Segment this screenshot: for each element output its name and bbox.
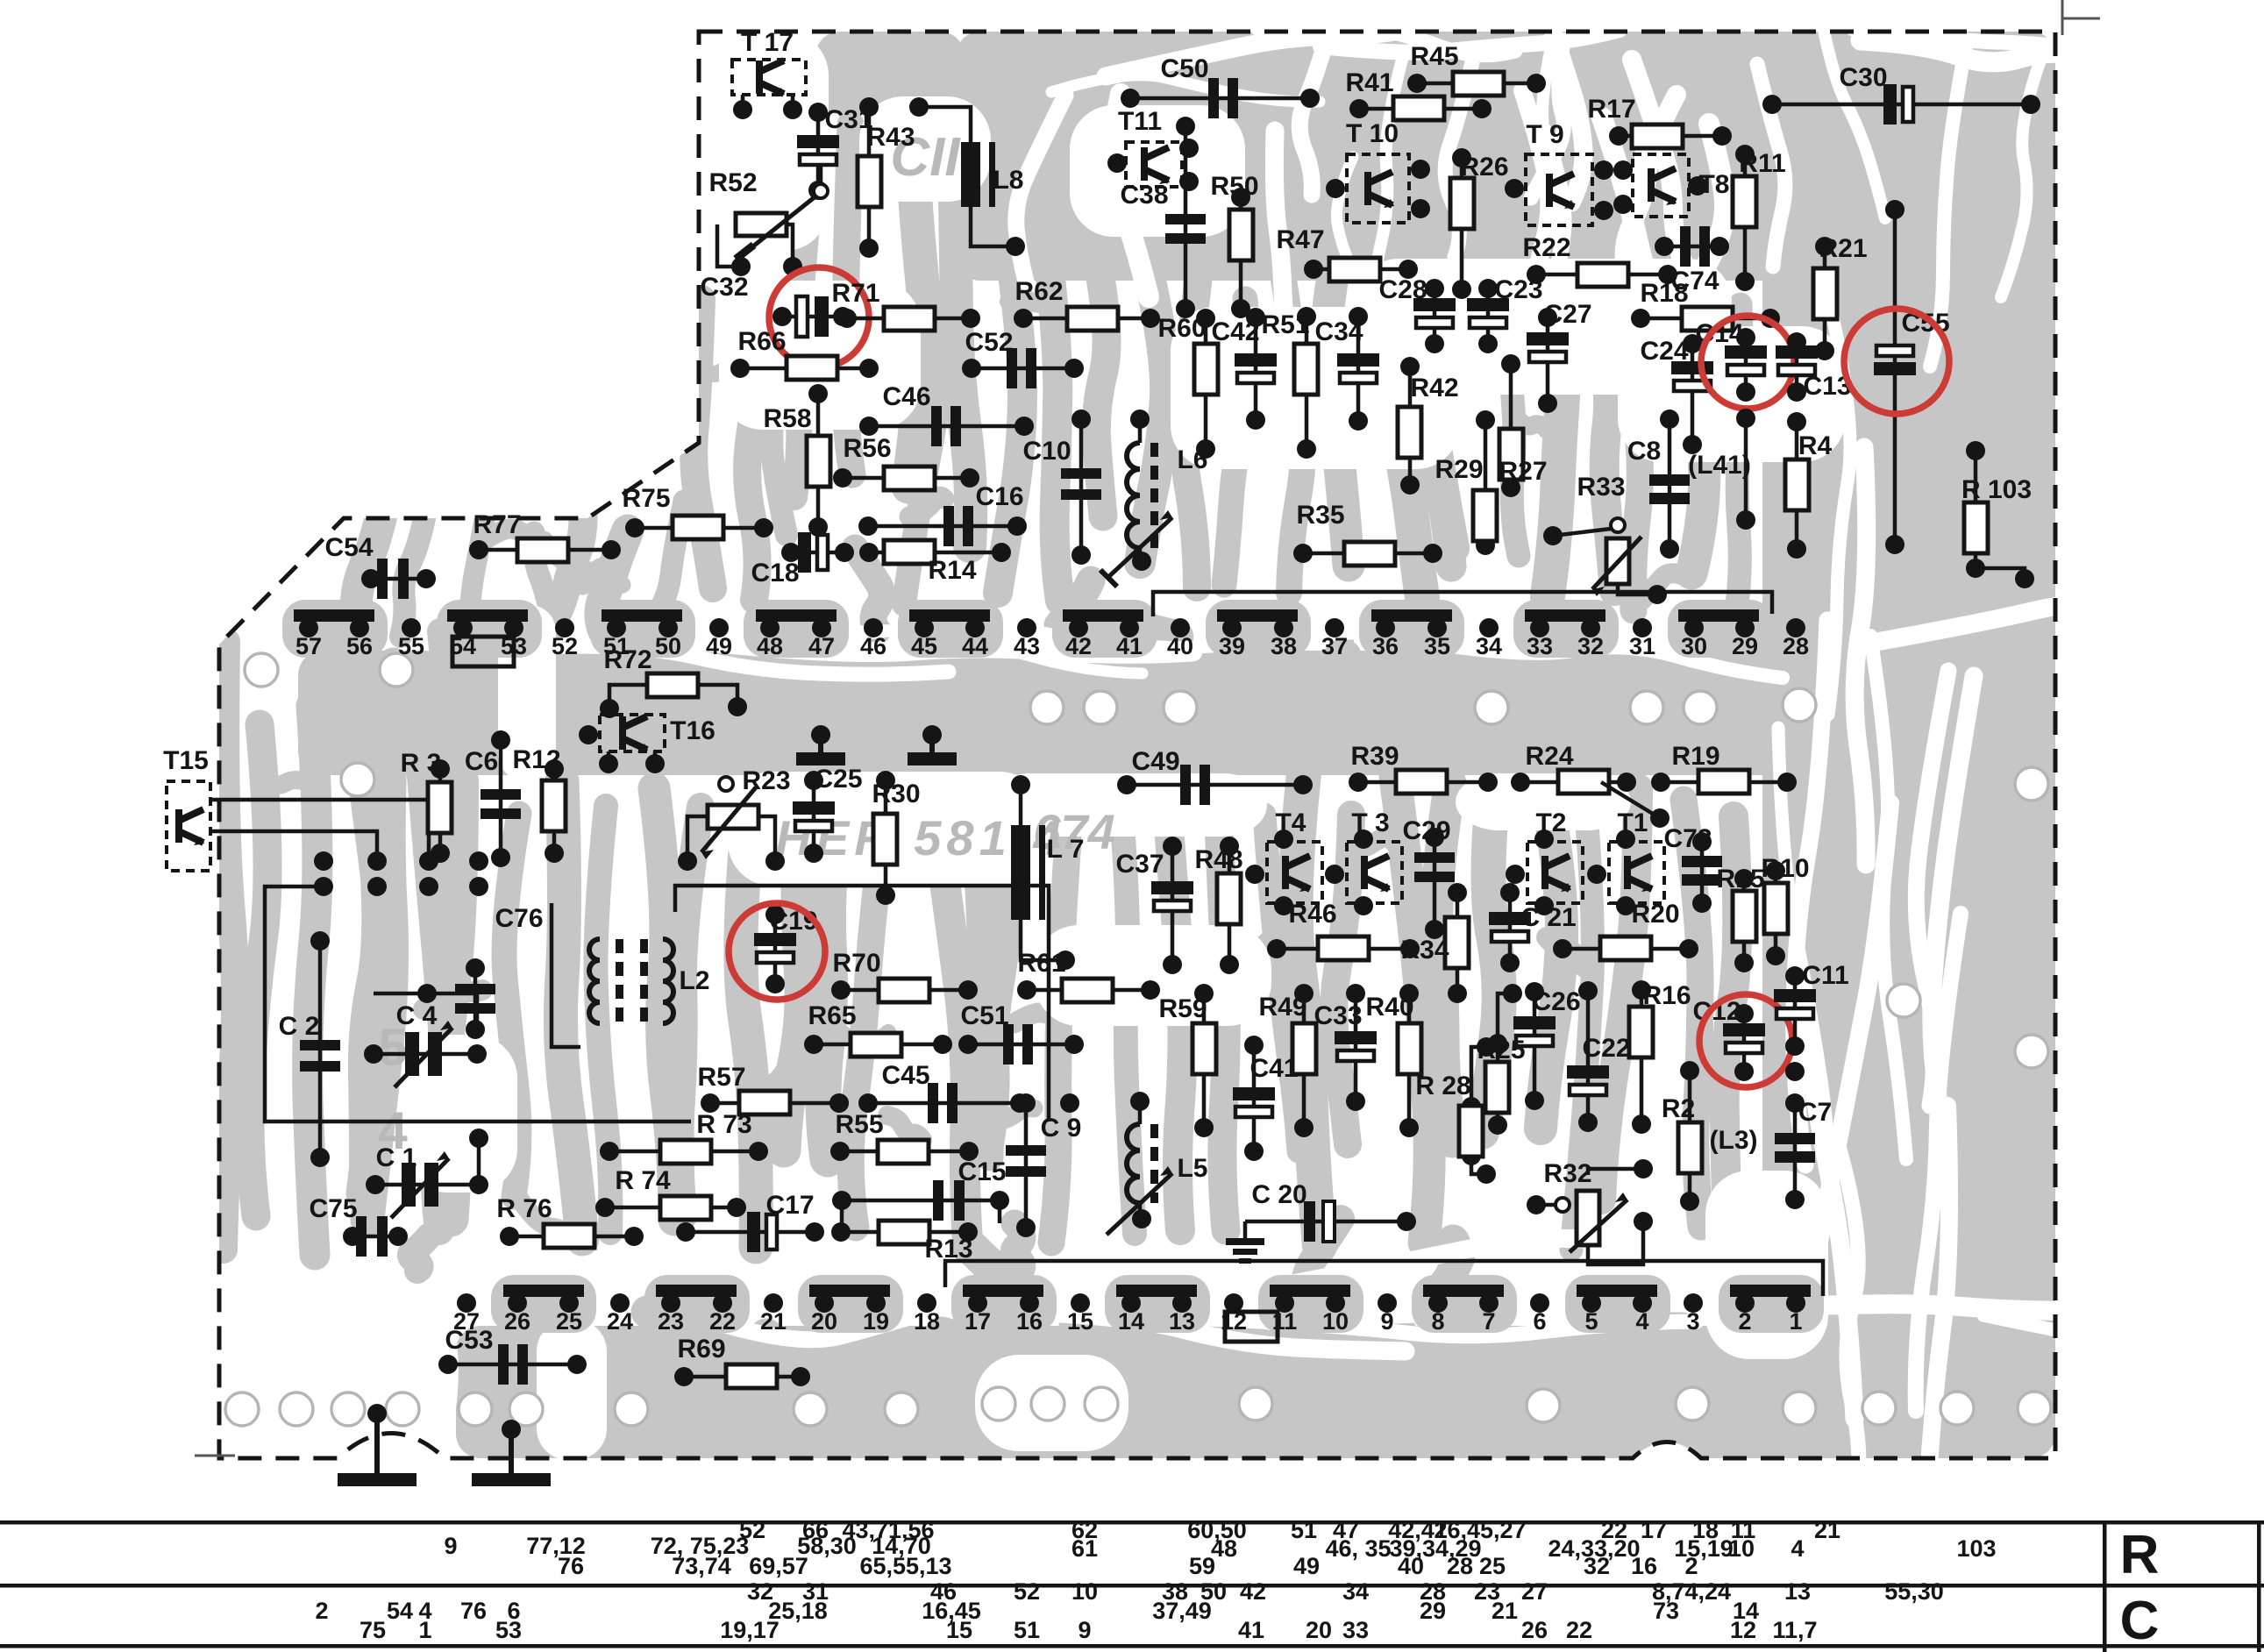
connector pins 5-4 [1577, 1285, 1657, 1297]
connector pins 23-22 [656, 1285, 737, 1297]
svg-text:R 73: R 73 [696, 1110, 751, 1139]
svg-text:13: 13 [1784, 1578, 1811, 1605]
connector pins 39-38 [1217, 609, 1298, 622]
resistor R27 [1509, 364, 1513, 488]
transistor T15 [167, 781, 210, 871]
resistor R48 [1228, 846, 1232, 965]
resistor R22 [1536, 273, 1668, 277]
wire loop left [265, 887, 691, 1122]
svg-text:C28: C28 [1378, 275, 1427, 304]
svg-text:T 3: T 3 [1351, 808, 1389, 837]
svg-text:4: 4 [1635, 1308, 1648, 1335]
svg-text:C50: C50 [1160, 54, 1208, 83]
transistor T10 [1347, 154, 1409, 223]
capacitor C26 [1533, 992, 1537, 1100]
connector pins 8-7 [1423, 1285, 1504, 1297]
capacitor C42 [1254, 317, 1258, 420]
mounting holes [245, 653, 278, 687]
svg-text:R14: R14 [928, 556, 976, 585]
node row [314, 851, 333, 871]
registration mark top right [2062, 0, 2100, 35]
svg-text:L 7: L 7 [1047, 835, 1085, 864]
resistor R70 [841, 988, 968, 993]
registration mark bottom left [195, 1455, 235, 1457]
svg-text:C15: C15 [958, 1157, 1006, 1186]
connector pad 3 [1684, 1293, 1703, 1313]
resistor R30 [884, 780, 888, 895]
node L41 wire [1744, 418, 1748, 520]
svg-text:C17: C17 [765, 1191, 814, 1220]
svg-text:76: 76 [460, 1598, 487, 1624]
svg-text:29: 29 [1732, 633, 1758, 659]
connector pins 36-35 [1371, 609, 1452, 622]
connector pins 30-29 [1678, 609, 1759, 622]
svg-text:R32: R32 [1543, 1159, 1591, 1188]
capacitor C38 [1184, 126, 1188, 309]
svg-text:37: 37 [1321, 633, 1348, 659]
resistor R26 [1460, 158, 1464, 289]
svg-text:R58: R58 [763, 404, 811, 433]
svg-text:56: 56 [346, 633, 373, 659]
capacitor C76 [473, 968, 478, 1029]
connector pins 33-32 [1525, 609, 1605, 622]
svg-text:3: 3 [1686, 1308, 1699, 1335]
resistor R17 [1619, 134, 1722, 139]
resistor R18 [1641, 317, 1770, 321]
svg-text:61: 61 [1071, 1535, 1098, 1562]
resistor R69 [684, 1375, 801, 1379]
svg-text:C16: C16 [975, 482, 1023, 511]
svg-text:R41: R41 [1345, 68, 1393, 97]
svg-text:R51: R51 [1261, 310, 1309, 339]
svg-text:34: 34 [1342, 1578, 1369, 1605]
svg-text:R23: R23 [742, 766, 790, 795]
svg-text:R20: R20 [1631, 900, 1679, 929]
resistor R74 [605, 1206, 737, 1210]
svg-text:L8: L8 [993, 166, 1023, 195]
svg-text:51: 51 [1291, 1517, 1317, 1543]
svg-text:20: 20 [811, 1308, 837, 1335]
svg-text:R24: R24 [1525, 742, 1573, 771]
capacitor C51 [968, 1043, 1074, 1047]
highlight circle C14 [1701, 316, 1794, 409]
svg-text:12: 12 [1730, 1617, 1756, 1643]
svg-text:T 9: T 9 [1526, 120, 1563, 149]
resistor R4 [1795, 422, 1799, 549]
connector pins 17-16 [963, 1285, 1043, 1297]
svg-text:28: 28 [1447, 1553, 1473, 1579]
svg-text:50: 50 [655, 633, 681, 659]
connector pins 45-44 [909, 609, 990, 622]
svg-text:R26: R26 [1460, 153, 1508, 182]
svg-text:17: 17 [1641, 1517, 1667, 1543]
highlight circle C19 [729, 903, 825, 1000]
resistor R56 [843, 476, 970, 481]
capacitor C7 [1793, 1103, 1798, 1200]
connector pins 51-50 [602, 609, 682, 622]
bus wire top [1153, 592, 1772, 616]
svg-text:R45: R45 [1410, 42, 1458, 71]
svg-text:R39: R39 [1350, 742, 1399, 771]
svg-text:32: 32 [1577, 633, 1604, 659]
capacitor C22 [1586, 991, 1591, 1122]
resistor R3 [438, 769, 443, 853]
svg-text:C76: C76 [495, 904, 543, 933]
resistor R46 [1277, 947, 1410, 951]
svg-text:C26: C26 [1532, 987, 1580, 1016]
svg-text:21: 21 [1492, 1598, 1518, 1624]
capacitor C15 [842, 1199, 1000, 1203]
svg-text:C38: C38 [1120, 181, 1168, 210]
svg-text:21: 21 [760, 1308, 787, 1335]
svg-text:20: 20 [1306, 1617, 1332, 1643]
svg-text:39: 39 [1219, 633, 1245, 659]
svg-text:R18: R18 [1640, 279, 1688, 308]
wire loop C4 [374, 993, 477, 1029]
svg-text:T8: T8 [1698, 170, 1729, 199]
resistor R58 [816, 394, 821, 527]
transistor T16 [600, 715, 665, 751]
svg-text:17: 17 [965, 1308, 991, 1335]
capacitor C41 [1252, 1045, 1257, 1151]
svg-text:R15: R15 [1716, 865, 1764, 894]
svg-text:26: 26 [504, 1308, 530, 1335]
resistor R65 [814, 1043, 943, 1047]
highlight circle C32 [769, 267, 869, 367]
capacitor C50 [1130, 96, 1310, 101]
connector pad 12 [1224, 1293, 1243, 1313]
svg-text:73,74: 73,74 [672, 1553, 731, 1579]
capacitor C10 [1079, 419, 1084, 555]
connector pad 27 [457, 1293, 476, 1313]
capacitor C29 [1433, 837, 1437, 929]
svg-text:51: 51 [1014, 1617, 1040, 1643]
svg-text:22: 22 [1566, 1617, 1592, 1643]
connector pad 28 [1786, 618, 1805, 637]
svg-text:C46: C46 [882, 382, 930, 411]
svg-text:55: 55 [398, 633, 424, 659]
svg-text:26: 26 [1521, 1617, 1548, 1643]
connector pins 11-10 [1270, 1285, 1350, 1297]
svg-text:53: 53 [495, 1617, 522, 1643]
resistor R51 [1305, 317, 1309, 449]
svg-text:10: 10 [1728, 1535, 1755, 1562]
capacitor C25 [812, 780, 816, 853]
svg-text:R56: R56 [843, 434, 891, 463]
svg-text:C52: C52 [965, 328, 1013, 357]
ground [374, 1413, 380, 1473]
svg-text:C42: C42 [1211, 317, 1259, 346]
svg-text:R17: R17 [1587, 95, 1635, 124]
resistor R10 [1774, 871, 1778, 956]
bus wire bottom [945, 1261, 1823, 1296]
svg-text:C75: C75 [309, 1194, 357, 1223]
svg-text:C37: C37 [1115, 850, 1164, 879]
svg-text:R33: R33 [1577, 473, 1625, 502]
svg-text:65,55,13: 65,55,13 [859, 1553, 951, 1579]
svg-text:7: 7 [1482, 1308, 1495, 1335]
capacitor C49 [1127, 783, 1303, 787]
svg-text:23: 23 [658, 1308, 684, 1335]
wire R24 diag [1601, 782, 1660, 818]
svg-text:35: 35 [1424, 633, 1450, 659]
svg-text:40: 40 [1398, 1553, 1424, 1579]
svg-text:37,49: 37,49 [1152, 1598, 1212, 1624]
svg-text:C73: C73 [1663, 824, 1712, 853]
resistor R42 [1408, 367, 1413, 485]
svg-text:R4: R4 [1798, 431, 1833, 460]
svg-text:52: 52 [552, 633, 578, 659]
resistor R45 [1417, 82, 1536, 86]
svg-text:C 9: C 9 [1041, 1114, 1082, 1143]
svg-text:R42: R42 [1410, 374, 1458, 402]
frame pins 12-11 [1225, 1312, 1278, 1342]
svg-text:R65: R65 [808, 1001, 856, 1030]
svg-text:31: 31 [802, 1578, 829, 1605]
ground [929, 735, 935, 752]
svg-text:C 4: C 4 [396, 1001, 438, 1030]
capacitor C27 [1546, 317, 1550, 403]
svg-text:R43: R43 [866, 123, 915, 152]
svg-text:R 74: R 74 [615, 1166, 671, 1195]
svg-text:R59: R59 [1158, 994, 1207, 1023]
svg-text:C7: C7 [1798, 1098, 1832, 1127]
highlight circle C12 [1699, 994, 1792, 1087]
svg-text:9: 9 [1380, 1308, 1393, 1335]
capacitor C54 [371, 577, 426, 581]
connector pad 49 [709, 618, 729, 637]
capacitor C55 [1893, 210, 1897, 545]
svg-text:15: 15 [1067, 1308, 1093, 1335]
svg-text:46: 46 [860, 633, 886, 659]
capacitor C13 [1795, 342, 1799, 392]
transistor T3 [1347, 842, 1402, 903]
connector pad 52 [555, 618, 574, 637]
svg-text:76: 76 [558, 1553, 584, 1579]
capacitor C14 [1744, 338, 1748, 392]
svg-text:R62: R62 [1015, 277, 1063, 306]
resistor R61 [1027, 988, 1150, 993]
svg-text:L2: L2 [679, 966, 709, 995]
connector pins 57-56 [294, 609, 374, 622]
svg-text:R12: R12 [512, 745, 560, 774]
resistor R103 [1974, 451, 1978, 568]
svg-text:R2: R2 [1662, 1094, 1695, 1123]
svg-text:C8: C8 [1627, 437, 1661, 466]
svg-text:T2: T2 [1535, 808, 1566, 837]
connector pad 37 [1325, 618, 1344, 637]
resistor R14 [869, 551, 1001, 555]
connector pins 54-53 [447, 609, 528, 622]
resistor R24 [1520, 780, 1627, 785]
svg-text:C 2: C 2 [279, 1012, 320, 1041]
transistor T17 [732, 60, 806, 95]
svg-text:19,17: 19,17 [720, 1617, 780, 1643]
capacitor C28 [1433, 288, 1437, 344]
resistor R29 [1484, 420, 1488, 545]
svg-text:T4: T4 [1275, 808, 1306, 837]
svg-text:9: 9 [1078, 1617, 1091, 1643]
capacitor C45 [868, 1101, 1020, 1106]
transistor T2 [1527, 842, 1583, 903]
svg-text:43: 43 [1014, 633, 1040, 659]
svg-text:R 103: R 103 [1961, 475, 2032, 504]
resistor R71 [847, 317, 971, 321]
capacitor C24 [1691, 344, 1695, 445]
svg-text:T1: T1 [1617, 808, 1648, 837]
svg-text:R27: R27 [1499, 457, 1547, 486]
svg-text:2: 2 [315, 1598, 328, 1624]
svg-text:R40: R40 [1365, 993, 1413, 1022]
connector pad 46 [864, 618, 883, 637]
svg-text:31: 31 [1629, 633, 1655, 659]
connector pad 21 [764, 1293, 783, 1313]
svg-text:R19: R19 [1671, 742, 1719, 771]
svg-text:R30: R30 [872, 780, 920, 808]
resistor R20 [1563, 947, 1689, 951]
svg-text:R11: R11 [1739, 149, 1785, 178]
wire loop L2 [552, 903, 580, 1047]
svg-text:15,19: 15,19 [1674, 1535, 1734, 1562]
wire T15 upper [210, 800, 429, 855]
svg-text:18: 18 [914, 1308, 940, 1335]
svg-text:32: 32 [1584, 1553, 1610, 1579]
connector pad 9 [1378, 1293, 1397, 1313]
svg-text:R61: R61 [1017, 949, 1065, 978]
resistor R25 [1496, 1043, 1500, 1125]
capacitor C30 [1772, 103, 2031, 107]
resistor R2 [1688, 1071, 1692, 1201]
svg-text:(L41): (L41) [1688, 451, 1751, 480]
resistor R76 [509, 1235, 634, 1239]
coil L6 [1127, 443, 1140, 548]
svg-text:26,45,27: 26,45,27 [1434, 1517, 1526, 1543]
ground [509, 1429, 514, 1473]
resistor R49 [1302, 993, 1306, 1128]
svg-text:R52: R52 [708, 168, 757, 197]
svg-text:T11: T11 [1118, 107, 1162, 136]
resistor R47 [1314, 267, 1408, 272]
svg-text:16: 16 [1016, 1308, 1043, 1335]
capacitor C2 [318, 941, 323, 1157]
svg-text:1: 1 [418, 1617, 431, 1643]
connector pins 26-25 [503, 1285, 584, 1297]
svg-text:T15: T15 [163, 746, 209, 775]
capacitor C6 [499, 740, 503, 858]
connector pad 40 [1171, 618, 1190, 637]
svg-text:46, 35: 46, 35 [1325, 1535, 1391, 1562]
svg-text:R72: R72 [603, 645, 651, 674]
svg-text:52: 52 [1014, 1578, 1040, 1605]
coil L7 [1019, 785, 1023, 825]
svg-text:R57: R57 [697, 1063, 745, 1092]
svg-text:R48: R48 [1194, 845, 1242, 874]
svg-text:R50: R50 [1210, 172, 1258, 201]
svg-text:10: 10 [1071, 1578, 1098, 1605]
coil L2 [589, 939, 600, 1023]
resistor R77 [479, 548, 611, 552]
resistor R41 [1359, 107, 1482, 111]
svg-text:R21: R21 [1819, 234, 1867, 263]
svg-text:T16: T16 [670, 716, 716, 745]
svg-text:R60: R60 [1157, 314, 1206, 343]
svg-text:R29: R29 [1435, 455, 1483, 484]
svg-text:C30: C30 [1839, 63, 1887, 92]
svg-text:C34: C34 [1314, 317, 1363, 346]
resistor R34 [1456, 893, 1460, 993]
svg-text:R 3: R 3 [401, 749, 442, 778]
svg-text:73: 73 [1653, 1598, 1679, 1624]
svg-text:C25: C25 [814, 765, 862, 794]
coil L5 [1127, 1124, 1140, 1203]
resistor R21 [1823, 246, 1827, 351]
svg-text:R47: R47 [1276, 225, 1324, 254]
svg-text:21: 21 [1814, 1517, 1840, 1543]
connector pad 55 [402, 618, 421, 637]
svg-text:15: 15 [946, 1617, 972, 1643]
resistor R55 [840, 1150, 969, 1154]
svg-text:41: 41 [1238, 1617, 1264, 1643]
resistor R15 [1742, 879, 1747, 963]
svg-text:30: 30 [1681, 633, 1707, 659]
svg-text:9: 9 [444, 1533, 457, 1559]
svg-text:C22: C22 [1582, 1034, 1630, 1063]
svg-text:T 10: T 10 [1346, 119, 1399, 148]
svg-text:R55: R55 [835, 1110, 883, 1139]
svg-text:C 20: C 20 [1251, 1180, 1306, 1209]
svg-text:47: 47 [808, 633, 835, 659]
resistor R39 [1358, 780, 1488, 785]
capacitor C74 [1664, 245, 1719, 249]
svg-text:6: 6 [1533, 1308, 1546, 1335]
svg-text:103: 103 [1956, 1535, 1996, 1562]
svg-text:R13: R13 [924, 1235, 972, 1264]
transistor T8 [1633, 154, 1689, 217]
resistor R59 [1202, 993, 1207, 1128]
resistor R50 [1239, 197, 1243, 309]
svg-text:34: 34 [1476, 633, 1502, 659]
svg-text:48: 48 [757, 633, 783, 659]
coil L8 [919, 107, 971, 142]
svg-text:45: 45 [911, 633, 937, 659]
svg-text:C6: C6 [465, 747, 498, 776]
svg-text:8: 8 [1431, 1308, 1444, 1335]
svg-text:49: 49 [1293, 1553, 1320, 1579]
svg-text:14: 14 [1118, 1308, 1144, 1335]
frame pins 54-53 [452, 637, 514, 666]
svg-text:(L3): (L3) [1710, 1126, 1758, 1155]
capacitor C21 [1508, 893, 1513, 963]
capacitor C53 [448, 1363, 577, 1367]
svg-text:R 76: R 76 [496, 1194, 552, 1223]
connector pad 15 [1071, 1293, 1090, 1313]
svg-text:57: 57 [295, 633, 322, 659]
svg-text:C54: C54 [324, 533, 373, 562]
capacitor C9 [1024, 1103, 1029, 1228]
svg-text:R16: R16 [1642, 981, 1691, 1010]
svg-text:R71: R71 [831, 279, 879, 308]
svg-text:C33: C33 [1314, 1001, 1362, 1030]
svg-text:R69: R69 [677, 1335, 725, 1364]
svg-text:59: 59 [1189, 1553, 1215, 1579]
wire L2 right [675, 886, 1049, 1122]
resistor R12 [552, 769, 557, 853]
highlight circle C55 [1844, 309, 1949, 414]
svg-text:C29: C29 [1402, 816, 1450, 845]
svg-text:25: 25 [1479, 1553, 1506, 1579]
svg-text:29: 29 [1420, 1598, 1446, 1624]
resistor R73 [609, 1150, 758, 1154]
